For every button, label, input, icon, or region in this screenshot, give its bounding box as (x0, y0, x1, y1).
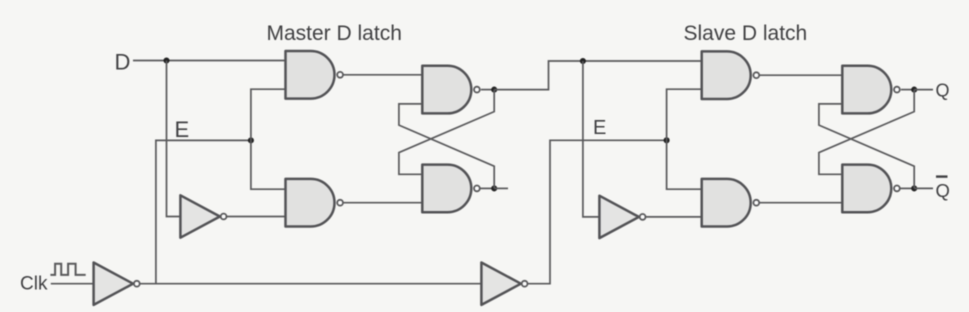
nand U9 (slave latch top) (842, 66, 900, 114)
wire U1 out to U4 top input (343, 74, 422, 76)
wire U4 bubble to node (481, 89, 494, 91)
wire U10 bubble to node (901, 187, 915, 189)
wire U6 out to U8 lower input (646, 216, 702, 218)
overbar of Qbar (936, 175, 948, 177)
node master E junction (248, 137, 254, 143)
wire U3 out to U2 lower input (227, 216, 286, 218)
inverter B2 (clock second) (481, 263, 527, 305)
wire slave E to U7 lower input (667, 89, 702, 140)
svg-text:Master D latch: Master D latch (267, 22, 402, 45)
svg-text:E: E (593, 117, 606, 139)
wire cross-couple U5 out to U4 lower input (399, 104, 494, 188)
node slave D junction (580, 58, 586, 64)
nand U2 (master input bottom) (286, 179, 344, 227)
inverter U6 (slave D invert) (599, 196, 645, 238)
nand U4 (master latch top) (422, 66, 480, 114)
wire B2 out up to slave E line (528, 140, 667, 283)
node U4 output (491, 87, 497, 93)
wire B1 out to B2 (140, 283, 482, 285)
wire U5 bubble to node (481, 187, 495, 189)
inverter U3 (master D invert) (180, 195, 226, 237)
wire cross-couple U10 out to U9 lower input (819, 104, 914, 188)
svg-text:Q: Q (936, 81, 950, 101)
wire E to U1 lower input (251, 89, 286, 140)
node Q (911, 87, 917, 93)
svg-text:D: D (115, 50, 131, 75)
svg-text:Q: Q (936, 180, 950, 201)
node slave E junction (664, 137, 670, 143)
wire node to Qbar label (914, 187, 933, 189)
nand U5 (master latch bottom) (422, 165, 480, 213)
clock waveform symbol (50, 264, 85, 275)
wire node to Q label (914, 89, 933, 91)
nand U7 (slave input top) (702, 51, 760, 99)
wire master out to slave (494, 61, 702, 90)
node U5 output (491, 185, 497, 191)
wire U2 out to U5 bottom input (343, 202, 422, 204)
nand U10 (slave latch bottom) (842, 165, 900, 213)
nand U1 (master input top) (286, 51, 344, 99)
svg-text:Clk: Clk (20, 274, 48, 295)
wire slave E to U8 upper input (667, 140, 702, 189)
wire Clk to inverter B1 (51, 283, 94, 285)
wire U9 bubble to node (901, 89, 914, 91)
node D junction (163, 57, 169, 63)
wire U5 output stub (494, 187, 508, 189)
wire cross-couple U9 out to U10 upper input (819, 90, 914, 175)
wire U7 out to U9 top input (759, 74, 842, 76)
svg-text:E: E (175, 117, 190, 142)
wire D down to inverter U3 (167, 61, 181, 217)
wire E to U2 upper input (251, 140, 286, 189)
svg-text:Slave D latch: Slave D latch (684, 22, 808, 45)
node Qbar (911, 185, 917, 191)
nand U8 (slave input bottom) (702, 179, 760, 227)
wire U8 out to U10 bottom input (759, 202, 842, 204)
wire master E line from clock (156, 140, 251, 283)
wire cross-couple U4 out to U5 upper input (399, 90, 494, 175)
wire D to NAND U1 (133, 60, 286, 62)
inverter B1 (clock) (94, 263, 140, 305)
wire slave D down to inverter U6 (583, 61, 600, 217)
